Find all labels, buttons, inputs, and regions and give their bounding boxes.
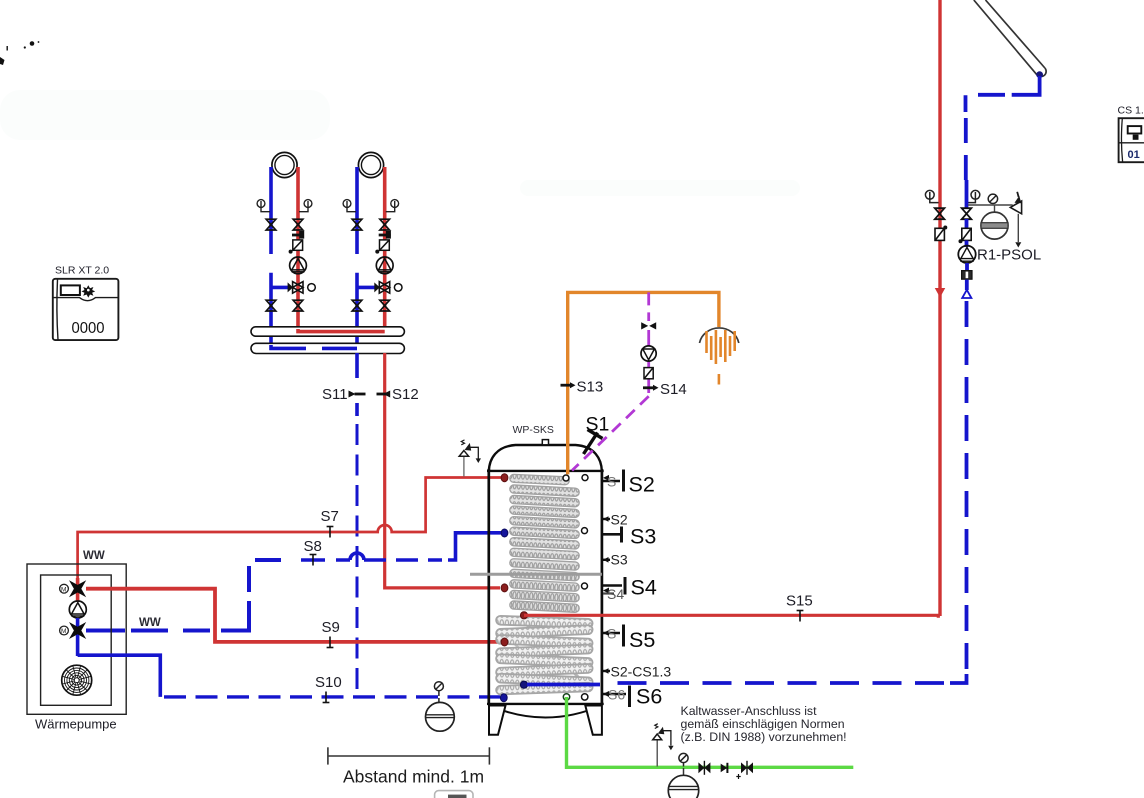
wire blue stub into valve — [965, 180, 969, 208]
HK2 valve red lower — [380, 300, 390, 311]
solar safety valve — [1010, 192, 1021, 248]
upper heat exchanger coil — [510, 474, 580, 612]
cold water pressure gauge — [679, 753, 688, 766]
HK1 check valve — [289, 240, 303, 254]
expansion vessel cap valve — [434, 682, 443, 696]
tank top inner line — [487, 470, 604, 472]
wire solar flow riser (red) — [938, 0, 941, 616]
svg-text:gemäß einschlägigen Normen: gemäß einschlägigen Normen — [681, 717, 845, 731]
HK1 valve blue lower — [266, 300, 276, 311]
svg-text:Wärmepumpe: Wärmepumpe — [35, 717, 117, 732]
heat pump 4-way valve upper — [69, 580, 86, 597]
tank left wall — [487, 469, 490, 705]
ink specks top-left — [0, 41, 39, 65]
controller SLR XT 2.0 housing — [53, 279, 119, 340]
HK2 thermometer left — [343, 200, 356, 212]
heat pump pump — [69, 601, 86, 618]
wire S7 flow line (red) heat pump to tank — [78, 478, 502, 587]
cold water check valve — [721, 763, 728, 773]
svg-text:S6: S6 — [608, 687, 625, 703]
wire blue stub — [965, 263, 969, 271]
cold water safety valve — [653, 724, 674, 767]
sensor tick S7 — [327, 527, 334, 538]
wire solar return bottom (blue dashed) to tank — [527, 683, 944, 685]
cold water shutoff valve 2 — [736, 761, 753, 779]
safety valve at tank flow line — [459, 440, 481, 477]
wire blue stub — [965, 280, 969, 290]
sensor S4 big tick — [603, 577, 625, 602]
wire circulation diagonal (purple dashed) — [572, 396, 649, 470]
wire blue stub — [965, 219, 969, 229]
HK1 flow pipe (red) — [296, 167, 300, 332]
circulation valve — [641, 322, 656, 329]
bottom cut-off symbol — [435, 791, 473, 798]
svg-text:WW: WW — [139, 617, 161, 629]
svg-text:S: S — [607, 626, 616, 642]
wire S8 return dashed (blue) heat pump to tank — [86, 533, 502, 631]
R1-PSOL group — [925, 180, 1041, 298]
svg-text:S3: S3 — [630, 525, 656, 549]
solar collector panel — [974, 0, 1046, 77]
tank foot left — [489, 706, 506, 735]
wire gray manifold line — [968, 204, 1013, 206]
svg-text:Abstand mind. 1m: Abstand mind. 1m — [343, 767, 484, 787]
sensor S1 on dome — [584, 430, 603, 455]
wire S11 riser (blue) — [355, 353, 359, 689]
svg-text:Kaltwasser-Anschluss ist: Kaltwasser-Anschluss ist — [681, 704, 818, 718]
valve blue side — [962, 208, 972, 219]
collector outlet dot (blue) — [1036, 71, 1043, 78]
solar flow direction arrow (red) — [936, 289, 945, 297]
sensor tick S13 on orange riser — [561, 382, 576, 388]
sensor S12 — [377, 391, 391, 398]
svg-text:S8: S8 — [304, 538, 322, 555]
sensor S3 small tick — [603, 557, 610, 563]
HK2 flow pipe (red) — [383, 167, 387, 332]
wire S10 dashed (blue) — [164, 695, 500, 698]
svg-text:S13: S13 — [577, 379, 604, 396]
HK2 valve blue lower — [352, 300, 362, 311]
sensor S2-CS1.3 tick — [603, 668, 610, 674]
svg-text:S4: S4 — [631, 576, 657, 600]
heat pump motor circle upper — [60, 584, 69, 593]
HK2 balancing valve — [379, 231, 391, 239]
svg-text:M: M — [61, 628, 66, 635]
HK1 balancing valve — [292, 231, 304, 239]
check valve blue side — [959, 228, 972, 243]
controller CS box — [1118, 105, 1144, 163]
HK2 pump — [376, 257, 393, 274]
tank port solar flow (dark red) — [520, 612, 527, 619]
sensor S3 big tick — [603, 527, 622, 543]
wire red in upper bar — [298, 329, 385, 332]
HK1 return pipe (blue) — [269, 167, 273, 348]
svg-text:SLR XT 2.0: SLR XT 2.0 — [55, 265, 109, 277]
wire solar return from collector (blue dashed) — [966, 76, 1040, 180]
circulation check valve — [644, 368, 653, 379]
svg-text:WW: WW — [83, 550, 105, 562]
HK2 mixing valve — [374, 282, 402, 294]
sensor S6 big tick — [603, 686, 630, 708]
svg-text:S11: S11 — [322, 386, 348, 403]
dimension line Abstand — [328, 747, 490, 764]
wire S12 riser (red) — [385, 353, 500, 588]
HK1 valve red upper — [293, 219, 303, 230]
HK2 valve blue upper — [352, 219, 362, 230]
sensor S2 small tick — [603, 516, 610, 522]
heat pump outer housing — [27, 564, 126, 714]
wire circulation riser (purple dashed) — [647, 292, 650, 393]
heat pump inner housing — [41, 575, 112, 705]
tank foot right — [585, 706, 602, 735]
wire blue stub — [965, 241, 969, 248]
wire DHW hot (orange) tank top to tap — [568, 292, 719, 474]
HK1 valve blue upper — [266, 219, 276, 230]
sensor tick S15 — [797, 611, 804, 622]
heat pump fan — [62, 665, 92, 695]
tank dome — [489, 445, 602, 472]
HK1 thermometer left — [257, 200, 270, 212]
svg-text:S10: S10 — [315, 674, 342, 691]
HK2 thermometer right — [386, 200, 399, 212]
controller display — [61, 285, 80, 295]
HK1 mixing valve — [288, 282, 316, 294]
HK1 mixing valve branch (blue) — [271, 286, 291, 290]
sensor tick S9 — [327, 637, 334, 648]
svg-text:S2: S2 — [611, 512, 628, 528]
tank port S9 (red) — [501, 638, 508, 646]
sensor tick S14 — [643, 385, 659, 391]
wire heat pump source line (blue) to S10 — [78, 655, 161, 697]
tank port S8 (blue) — [501, 529, 508, 537]
tap / shower arc — [700, 328, 739, 343]
valve red side — [935, 208, 945, 219]
expansion vessel below S10 — [426, 698, 455, 731]
HK2 valve red upper — [380, 219, 390, 230]
wire S15 solar flow (red) tank to riser — [524, 615, 938, 618]
wire blue in lower bar — [271, 345, 357, 348]
HK1 consumer circle — [272, 152, 297, 177]
svg-text:CS 1.: CS 1. — [1118, 105, 1144, 117]
heat pump 4-way valve lower — [69, 622, 86, 639]
svg-text:R1-PSOL: R1-PSOL — [977, 247, 1041, 264]
cold water expansion vessel — [668, 768, 698, 798]
svg-text:S9: S9 — [322, 619, 340, 636]
sensor S5 big tick — [603, 625, 624, 647]
svg-text:S1: S1 — [586, 414, 610, 436]
tank port S7 (red) — [501, 474, 508, 482]
distributor bar lower — [251, 343, 404, 353]
heating circuit group 1 — [257, 152, 315, 348]
svg-text:01: 01 — [1128, 149, 1140, 161]
faint scan streaks — [0, 90, 800, 196]
HK1 valve red lower — [293, 300, 303, 311]
solar return direction arrow (blue) — [962, 290, 971, 298]
tank sensor wells — [563, 475, 588, 701]
HK1 thermometer right — [299, 200, 312, 212]
svg-text:S15: S15 — [786, 593, 813, 610]
sensor S2 big tick — [603, 470, 624, 492]
svg-text:S2-CS1.3: S2-CS1.3 — [611, 664, 672, 680]
svg-text:S14: S14 — [660, 381, 687, 398]
storage tank WP-SKS body — [487, 424, 604, 735]
wire blue stub inside heat pump — [76, 618, 80, 656]
svg-text:(z.B. DIN 1988) vorzunehmen!: (z.B. DIN 1988) vorzunehmen! — [681, 730, 847, 744]
HK1 pump — [290, 257, 307, 274]
sensor tick S10 — [323, 692, 330, 703]
tank right wall — [601, 469, 604, 705]
svg-text:S12: S12 — [392, 386, 419, 403]
solar expansion vessel — [981, 205, 1008, 239]
controller flower icon — [81, 285, 95, 297]
lower heat exchanger coil — [496, 616, 593, 695]
heat pump motor circle lower — [60, 626, 69, 635]
wire solar return riser (blue dashed) — [965, 301, 969, 670]
svg-text:S: S — [607, 474, 616, 490]
check valve red side — [935, 226, 947, 241]
wire cold water (green) — [567, 697, 854, 767]
note Kaltwasser text — [681, 704, 847, 744]
heating circuit group 2 — [343, 152, 402, 348]
solar pump R1 — [958, 246, 975, 263]
svg-text:S4: S4 — [607, 586, 624, 602]
svg-text:0000: 0000 — [72, 320, 105, 337]
tank port S10 (blue) — [500, 694, 507, 702]
tank bottom dish — [490, 706, 602, 718]
distributor bar upper — [251, 327, 404, 336]
HK2 return pipe (blue) — [355, 167, 359, 348]
sensor S11 — [349, 391, 366, 398]
HK2 check valve — [375, 240, 389, 254]
tank mid grey separator — [470, 573, 602, 576]
svg-text:S2: S2 — [629, 473, 655, 497]
thermometer blue side — [968, 190, 980, 202]
tank port solar return (dark blue) — [520, 681, 527, 688]
tank bottom inner line — [487, 703, 604, 705]
tank nipple — [542, 440, 548, 445]
thermometer red side — [925, 190, 938, 202]
cold water shutoff valve 1 — [698, 761, 710, 775]
HK2 mixing valve branch (blue) — [357, 286, 378, 290]
svg-text:WP-SKS: WP-SKS — [513, 424, 554, 436]
wire S9 hot line (red) heat pump to tank — [86, 589, 502, 642]
circulation pump — [641, 346, 656, 361]
tap water jets (orange) — [707, 330, 735, 385]
svg-text:S5: S5 — [629, 628, 655, 652]
wire red stub inside heat pump — [76, 578, 80, 602]
tank port S12 (red) — [501, 584, 508, 592]
svg-text:M: M — [61, 586, 66, 593]
HK2 consumer circle — [358, 152, 383, 177]
pressure gauge — [988, 194, 997, 203]
svg-text:S3: S3 — [611, 552, 628, 568]
svg-text:S7: S7 — [321, 508, 339, 525]
sensor tick S8 — [310, 555, 317, 566]
flow meter — [962, 271, 972, 280]
svg-text:S6: S6 — [636, 685, 662, 709]
